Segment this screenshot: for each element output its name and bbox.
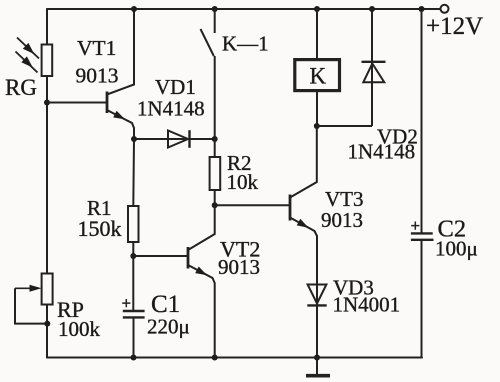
- wire VD1 anode down to R1: [132, 139, 135, 206]
- node VD1 anode: [131, 136, 137, 142]
- node VT2 base junction: [130, 253, 136, 259]
- svg-text:150k: 150k: [78, 216, 122, 241]
- node relay bottom / VD2 / VT3 collector: [314, 123, 320, 129]
- photoresistor RG: [16, 38, 53, 77]
- node bottom rail / C1: [131, 355, 137, 361]
- transistor VT2: [133, 205, 214, 357]
- +12V terminal: [441, 5, 449, 13]
- svg-text:100μ: 100μ: [435, 237, 478, 261]
- svg-text:1N4148: 1N4148: [348, 140, 416, 164]
- svg-text:1N4001: 1N4001: [333, 293, 401, 317]
- switch K-1: [201, 9, 215, 139]
- svg-text:VD1: VD1: [155, 75, 196, 99]
- node top rail / K-1: [212, 6, 218, 12]
- node top rail / VD2: [369, 6, 375, 12]
- relay K: [295, 9, 340, 126]
- ground: [306, 358, 330, 376]
- node RP wiper/bottom junction: [44, 321, 50, 327]
- svg-text:VT1: VT1: [77, 36, 116, 60]
- resistor R2: [210, 139, 221, 205]
- svg-text:100k: 100k: [58, 317, 101, 341]
- svg-text:10k: 10k: [227, 170, 259, 194]
- svg-text:K: K: [310, 64, 327, 89]
- svg-text:9013: 9013: [218, 255, 260, 279]
- potentiometer RP: [15, 274, 53, 324]
- diode VD3: [307, 236, 326, 358]
- svg-text:9013: 9013: [321, 208, 363, 232]
- svg-text:9013: 9013: [76, 64, 119, 88]
- svg-text:K—1: K—1: [222, 32, 269, 56]
- diode VD2: [362, 9, 386, 126]
- node R2 bottom / VT2 collector / VT3 base: [212, 202, 218, 208]
- wire node to VT3 base: [215, 204, 290, 206]
- svg-text:+12V: +12V: [426, 13, 483, 40]
- wire right branch lower (C2 bottom to rail): [421, 240, 423, 358]
- wire bottom rail: [47, 357, 422, 359]
- node A (VT1 base junction): [44, 100, 50, 106]
- capacitor C2: [411, 222, 434, 240]
- transistor VT1: [47, 9, 134, 139]
- diode VD1: [134, 130, 215, 148]
- node top rail / relay K: [314, 6, 320, 12]
- node VD1 cathode / R2 top: [212, 136, 218, 142]
- wire top rail: [47, 8, 440, 10]
- resistor R1: [128, 206, 139, 242]
- node top rail / C2 branch: [419, 6, 425, 12]
- capacitor C1: [122, 299, 144, 358]
- transistor VT3: [290, 126, 317, 285]
- node top rail / VT1 collector: [131, 6, 137, 12]
- wire left rail: [46, 9, 48, 358]
- wire right branch upper (to C2 top plate): [421, 9, 423, 233]
- svg-text:1N4148: 1N4148: [137, 97, 205, 121]
- wire R1 bottom to C1: [132, 242, 134, 311]
- node bottom rail / VT2 emitter: [212, 355, 218, 361]
- wire relay bottom to VD2 anode: [317, 125, 372, 127]
- node bottom rail / VD3 ground: [314, 355, 320, 361]
- svg-text:RG: RG: [5, 75, 37, 100]
- svg-text:220μ: 220μ: [147, 315, 190, 339]
